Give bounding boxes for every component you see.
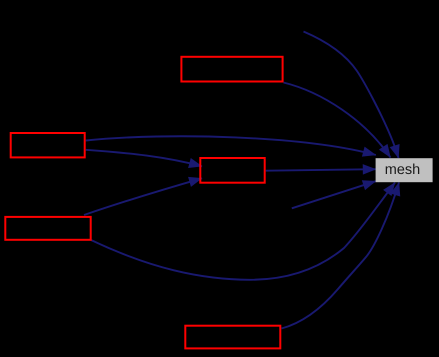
wire edge from top box to mesh [284,83,391,158]
wire edge from middle box to mesh [266,169,376,171]
wire edge from left box 1 over middle box to mesh [86,136,376,155]
wire edge from left box 1 to middle box [86,150,202,167]
wire edge from bottom box to mesh [282,183,400,329]
wire edge from offscreen node to mesh (top arc) [304,32,399,159]
node middle box [200,158,264,183]
wire edge from left box 2 to middle box [84,178,202,215]
node mesh [376,158,433,182]
wire edge from left box 2 under to mesh [91,183,395,280]
node left box 1 [11,133,85,157]
node bottom box [185,326,280,349]
node top box [181,57,282,82]
wire edge from hidden node to mesh [292,181,376,208]
node left box 2 [5,217,90,240]
